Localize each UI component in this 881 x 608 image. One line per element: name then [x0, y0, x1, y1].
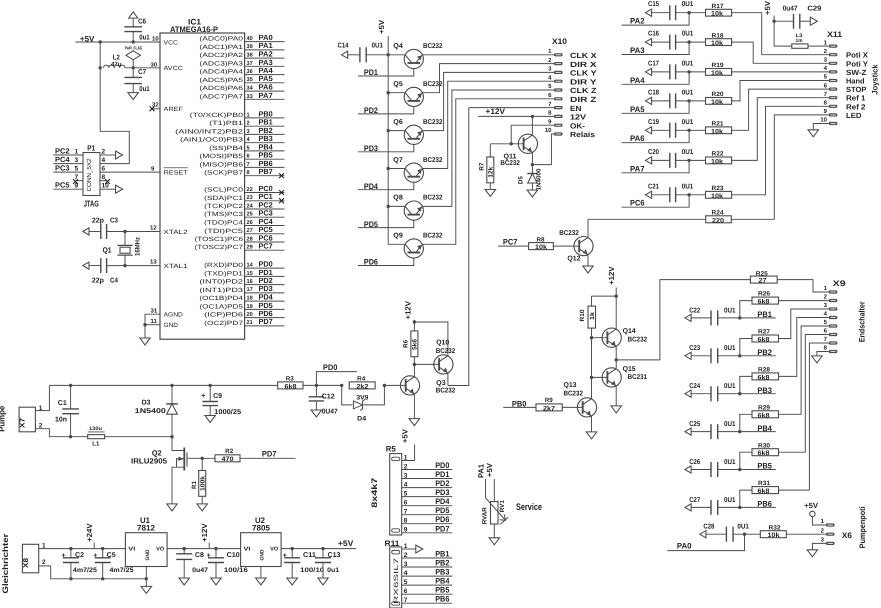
svg-text:(ADC6)PA6: (ADC6)PA6	[199, 85, 243, 92]
capacitor C10 100/16	[214, 547, 217, 550]
svg-text:R21: R21	[712, 121, 725, 128]
X10 pad 8 12V	[554, 115, 563, 118]
svg-text:D5: D5	[518, 176, 525, 185]
svg-text:C13: C13	[328, 552, 341, 559]
pin 1 net PB0	[245, 117, 285, 119]
capacitor C17 0U1	[645, 68, 651, 75]
svg-text:0U1: 0U1	[737, 524, 749, 531]
svg-text:2: 2	[42, 559, 46, 566]
wire +12V to Q10 collector	[414, 322, 448, 355]
pin 29 net PC7	[245, 249, 285, 251]
svg-text:22p: 22p	[92, 278, 104, 285]
svg-text:10k: 10k	[768, 532, 780, 539]
svg-text:0u1: 0u1	[139, 86, 150, 93]
svg-text:PD3: PD3	[435, 488, 450, 497]
resistor R8 10k	[529, 243, 554, 250]
svg-text:8: 8	[247, 170, 250, 176]
wire EN riser to Q10 emitter	[469, 107, 554, 109]
svg-text:EN: EN	[570, 104, 582, 113]
svg-text:0U1: 0U1	[682, 1, 694, 8]
wire Q6 emitter to X10	[422, 72, 554, 130]
node PA3	[687, 40, 690, 43]
wire RV1 to ground	[493, 524, 495, 538]
svg-text:10: 10	[102, 183, 110, 190]
capacitor C2 4m7/25	[69, 547, 72, 550]
svg-text:BC232: BC232	[564, 391, 584, 398]
label PC6 wire	[622, 195, 690, 207]
svg-text:10k: 10k	[711, 193, 723, 200]
wire +5V to RV1 top	[493, 479, 495, 502]
wire Q3 emitter to ground	[413, 394, 415, 419]
wire R22 to X11	[732, 98, 829, 161]
svg-text:R27: R27	[758, 329, 771, 336]
pin 24 net PC2	[245, 208, 285, 210]
svg-text:7: 7	[75, 174, 79, 181]
svg-text:10k: 10k	[711, 158, 723, 165]
svg-text:PD2: PD2	[364, 106, 378, 115]
svg-text:R26: R26	[758, 291, 771, 298]
X9 pad 6	[829, 333, 838, 336]
svg-text:R7: R7	[479, 162, 486, 171]
svg-text:0U1: 0U1	[724, 421, 736, 428]
svg-text:Q7: Q7	[393, 157, 403, 164]
svg-text:25: 25	[247, 212, 253, 218]
svg-text:C10: C10	[227, 552, 240, 559]
wire PC4 to P1 pin3	[53, 163, 83, 165]
svg-text:PD5: PD5	[435, 506, 450, 515]
svg-text:35: 35	[247, 77, 253, 83]
svg-text:17: 17	[247, 287, 253, 293]
resistor R24 220	[588, 218, 706, 220]
R5 pin7 net PD5	[402, 514, 453, 516]
svg-text:Q1: Q1	[103, 246, 112, 255]
svg-text:8: 8	[404, 518, 408, 525]
pin 39 net PA1	[245, 49, 285, 51]
wire R31 to X9 pin7	[779, 343, 829, 490]
wire R3 right to node	[303, 384, 342, 386]
svg-text:Pumpenpoti: Pumpenpoti	[858, 506, 867, 548]
svg-text:5: 5	[247, 145, 250, 151]
svg-text:(SS)PB4: (SS)PB4	[209, 145, 244, 152]
R11 pin4 net PB3	[402, 575, 453, 577]
ground below C8	[179, 578, 190, 585]
R11 pin6 net PB5	[402, 593, 453, 595]
resistor R20 10k	[706, 98, 732, 105]
wire PC3 to P1 pin5	[53, 171, 83, 173]
svg-text:C19: C19	[648, 119, 659, 126]
ground below C12	[311, 410, 322, 417]
wire Q11 collector	[531, 116, 533, 135]
svg-text:10k: 10k	[711, 11, 723, 18]
svg-text:1N4000: 1N4000	[536, 168, 543, 191]
wire +12V to R10	[592, 295, 617, 297]
svg-text:AVCC: AVCC	[164, 65, 184, 72]
node L2 left	[99, 66, 102, 69]
pin 15 net PD1	[245, 275, 285, 277]
svg-text:GND: GND	[260, 549, 266, 560]
ground below C9	[205, 416, 216, 423]
svg-text:PD5: PD5	[364, 220, 378, 229]
P1 pin6 wire to RESET	[100, 171, 160, 173]
ground below D5	[527, 190, 538, 197]
svg-text:PB1: PB1	[757, 310, 772, 319]
svg-text:RVAR: RVAR	[482, 507, 489, 525]
pin 33 net PA7	[245, 98, 285, 100]
svg-text:0U1: 0U1	[682, 60, 694, 67]
wire Q14 emitter to node	[615, 346, 617, 360]
svg-text:+5V: +5V	[485, 463, 494, 477]
svg-text:9: 9	[404, 527, 408, 534]
svg-text:28: 28	[247, 236, 253, 242]
capacitor C26 0U1	[685, 466, 691, 473]
wire R10 to bases and Q13 collector	[591, 328, 593, 399]
svg-text:VO: VO	[156, 547, 165, 553]
svg-text:PD7: PD7	[259, 317, 273, 326]
X11 pad 1	[829, 45, 838, 48]
svg-text:PD2: PD2	[435, 479, 450, 488]
svg-text:(T1)PB1: (T1)PB1	[209, 120, 244, 127]
svg-text:VI: VI	[128, 547, 136, 553]
svg-text:7: 7	[247, 162, 250, 168]
svg-text:1: 1	[404, 543, 408, 550]
P1 pin2 supply arrow	[100, 154, 116, 156]
svg-text:R10: R10	[579, 309, 586, 322]
svg-text:R9: R9	[545, 397, 554, 404]
capacitor C28 0U1	[700, 531, 706, 538]
svg-text:R4: R4	[357, 376, 366, 383]
svg-text:BC232: BC232	[436, 387, 456, 394]
svg-text:P1: P1	[87, 144, 95, 153]
wire R19 to X11	[732, 71, 829, 73]
svg-text:C29: C29	[807, 5, 821, 12]
wire R24 riser to X11 pin9 LED	[774, 115, 829, 219]
svg-text:C8: C8	[195, 552, 204, 559]
svg-text:VO: VO	[270, 547, 279, 553]
svg-text:CLK Z: CLK Z	[570, 86, 597, 95]
wire +5V to VCC	[75, 41, 160, 43]
R11 pin5 net PB4	[402, 584, 453, 586]
svg-text:0U1: 0U1	[724, 307, 736, 314]
wire rail to Q7 collector	[388, 168, 405, 170]
wire Q14 base	[592, 337, 608, 339]
pin 25 net PC3	[245, 216, 285, 218]
svg-text:27: 27	[247, 228, 253, 234]
svg-text:PC6: PC6	[630, 199, 645, 208]
X9 pad 7	[829, 341, 838, 344]
svg-text:Pumpe: Pumpe	[0, 405, 7, 432]
svg-text:0u47: 0u47	[192, 567, 208, 574]
svg-text:10k: 10k	[711, 40, 723, 47]
capacitor C11 100/10	[291, 547, 294, 550]
label PA7 wire	[622, 160, 690, 172]
wire top rail	[49, 384, 277, 386]
capacitor C14	[342, 51, 348, 58]
node +5V branch	[99, 40, 102, 43]
svg-text:11: 11	[151, 318, 158, 325]
svg-text:L1: L1	[92, 440, 100, 447]
mosfet Q2 IRLU2905	[172, 437, 184, 451]
X9 pad 2	[829, 299, 838, 302]
wire PA1 to wiper	[485, 479, 487, 498]
capacitor C13 0u1	[321, 547, 324, 550]
svg-text:0U1: 0U1	[372, 43, 384, 50]
capacitor C18 0U1	[645, 97, 651, 104]
svg-text:C4: C4	[110, 278, 118, 285]
svg-text:2k2: 2k2	[356, 383, 368, 390]
wire Q10 emitter	[447, 373, 449, 385]
svg-text:1: 1	[247, 112, 250, 118]
wire R25 to X9 pin1	[777, 280, 829, 292]
pin 26 net PC4	[245, 225, 285, 227]
svg-text:(ADC1)PA1: (ADC1)PA1	[199, 44, 243, 51]
svg-text:C16: C16	[648, 31, 659, 38]
svg-text:C15: C15	[648, 1, 659, 8]
svg-text:47u: 47u	[111, 61, 122, 68]
svg-text:(ADC2)PA2: (ADC2)PA2	[199, 52, 243, 59]
node XTAL2	[123, 230, 126, 233]
trimmer RV1 RVAR	[491, 502, 499, 524]
X11 pad 8	[829, 105, 838, 108]
svg-text:PA7: PA7	[259, 91, 273, 100]
wire R28 to X9 pin4	[779, 318, 829, 377]
svg-text:PB6: PB6	[757, 500, 772, 509]
svg-text:1: 1	[42, 542, 46, 549]
svg-text:BC232: BC232	[436, 348, 456, 355]
svg-text:DIR Y: DIR Y	[570, 77, 597, 86]
svg-text:3: 3	[247, 129, 250, 135]
R5 pin8 net PD6	[402, 523, 453, 525]
svg-text:34: 34	[247, 86, 254, 92]
svg-text:27: 27	[759, 278, 767, 285]
svg-text:12k: 12k	[487, 166, 494, 178]
svg-text:(OC2)PD7: (OC2)PD7	[204, 320, 244, 327]
svg-text:R20: R20	[712, 91, 725, 98]
svg-text:6k8: 6k8	[758, 412, 770, 419]
svg-text:XTAL1: XTAL1	[164, 263, 189, 270]
svg-text:PC7: PC7	[259, 242, 273, 251]
svg-text:PB2: PB2	[435, 559, 450, 568]
svg-text:DIR X: DIR X	[570, 60, 597, 69]
pin 18 net PD4	[245, 300, 285, 302]
svg-text:14: 14	[247, 263, 254, 269]
resistor R10 1k	[591, 296, 593, 306]
svg-text:10k: 10k	[711, 128, 723, 135]
svg-text:0U1: 0U1	[682, 89, 694, 96]
svg-text:R24: R24	[712, 210, 725, 217]
X10 pad 5 CLK Z	[554, 88, 563, 91]
svg-text:PB7: PB7	[259, 167, 273, 176]
wire AGND GND to ground	[145, 314, 160, 338]
X10 pad 6 DIR Z	[554, 97, 563, 100]
svg-text:0U1: 0U1	[682, 149, 694, 156]
wire PD2 to Q5 base	[358, 107, 414, 114]
node R4 left	[340, 384, 343, 387]
wire PD1 to Q4 base	[358, 69, 414, 76]
ground below U1	[141, 586, 152, 593]
svg-text:PA0: PA0	[677, 541, 692, 550]
node PB6	[738, 506, 741, 509]
svg-text:PD0: PD0	[323, 363, 338, 372]
svg-text:10k: 10k	[711, 70, 723, 77]
svg-text:(ADC7)PA7: (ADC7)PA7	[199, 93, 243, 100]
svg-text:1: 1	[404, 454, 408, 461]
resistor R19 10k	[706, 69, 732, 76]
capacitor C4 22p	[83, 262, 89, 269]
wire R27 to X9 pin3	[779, 309, 829, 339]
svg-text:1m: 1m	[796, 38, 804, 44]
transistor Q11 BC232	[518, 134, 537, 153]
svg-text:C20: C20	[648, 149, 659, 156]
svg-text:PB5: PB5	[757, 462, 772, 471]
svg-text:Q13: Q13	[564, 382, 577, 389]
svg-text:22p: 22p	[92, 218, 104, 225]
X6 pin3 ground	[812, 543, 826, 549]
node PA4	[687, 70, 690, 73]
svg-text:10k: 10k	[711, 99, 723, 106]
R5 pin9 net PD7	[402, 532, 453, 534]
svg-text:6k8: 6k8	[285, 383, 297, 390]
svg-text:Joystick: Joystick	[871, 64, 880, 95]
node rail Q4	[387, 53, 390, 56]
svg-text:2: 2	[247, 121, 250, 127]
svg-text:C5: C5	[107, 552, 116, 559]
svg-text:PA7: PA7	[630, 164, 645, 173]
svg-text:BC231: BC231	[628, 374, 648, 381]
svg-text:C6: C6	[138, 19, 146, 26]
ground below Q2	[167, 504, 177, 511]
svg-text:GND: GND	[164, 322, 179, 329]
resistor R18 10k	[706, 39, 732, 46]
svg-text:+12V: +12V	[200, 523, 209, 542]
svg-text:PD0: PD0	[435, 461, 450, 470]
svg-text:1N5400: 1N5400	[135, 408, 166, 415]
svg-text:PB5: PB5	[435, 586, 450, 595]
svg-text:C28: C28	[703, 524, 714, 531]
svg-text:19: 19	[247, 304, 253, 310]
resistor R2 470	[215, 455, 240, 462]
svg-text:10n: 10n	[55, 416, 67, 423]
svg-text:PA2: PA2	[630, 17, 645, 26]
ground below C7	[128, 93, 138, 100]
svg-text:10k: 10k	[535, 244, 547, 251]
resistor R7 12k	[489, 144, 491, 157]
R5 pin3 net PD1	[402, 478, 453, 480]
wire rail to Q4 collector	[388, 54, 405, 56]
svg-text:AREF: AREF	[164, 106, 184, 113]
svg-text:C2: C2	[75, 552, 84, 559]
svg-text:L2: L2	[113, 55, 120, 62]
svg-text:BC232: BC232	[423, 119, 443, 126]
svg-text:130u: 130u	[89, 426, 102, 432]
wire rail to Q6 collector	[388, 130, 405, 132]
X9 pad 3	[829, 307, 838, 310]
svg-text:1: 1	[75, 148, 79, 155]
wire U1 output	[167, 548, 241, 550]
svg-text:R32: R32	[769, 524, 782, 531]
wire Q7 emitter to X10	[422, 81, 554, 168]
X11 pad 7	[829, 96, 838, 99]
svg-text:R17: R17	[712, 3, 725, 10]
wire R17 to X11	[732, 13, 829, 55]
svg-text:4: 4	[404, 481, 408, 488]
svg-text:Gleichrichter: Gleichrichter	[1, 534, 10, 594]
svg-text:JTAG: JTAG	[84, 198, 99, 208]
X10 pad 4 DIR Y	[554, 80, 563, 83]
node R4 right	[383, 384, 386, 387]
R11 pin3 net PB2	[402, 566, 453, 568]
P1 pin8 no-connect	[100, 180, 106, 182]
capacitor C23 0U1	[685, 352, 691, 359]
svg-text:PD6: PD6	[364, 258, 378, 267]
transistor Q14 BC232	[602, 328, 621, 347]
svg-text:12V: 12V	[570, 113, 586, 122]
svg-text:Q5: Q5	[393, 81, 403, 88]
svg-text:20: 20	[247, 312, 253, 318]
svg-text:PB2: PB2	[757, 348, 772, 357]
wire R2 to PD7	[240, 457, 296, 459]
svg-text:C7: C7	[138, 69, 146, 76]
regulator U1 7812	[125, 533, 167, 567]
wire PC2 to P1 pin1	[53, 154, 83, 156]
wire R20 to X11	[732, 81, 829, 101]
X9 pad 1	[829, 290, 838, 293]
resistor R26 6k8	[740, 301, 752, 318]
resistor R17 10k	[706, 9, 732, 16]
wire Q3 collector	[413, 364, 415, 376]
svg-text:470: 470	[222, 456, 234, 463]
svg-text:Q12: Q12	[567, 255, 580, 262]
svg-text:10: 10	[152, 36, 159, 43]
wire Q15 base	[592, 376, 608, 378]
svg-text:(TDO)PC4: (TDO)PC4	[204, 220, 244, 227]
svg-text:Relais: Relais	[570, 130, 595, 139]
capacitor C1 10n	[69, 384, 72, 387]
svg-text:C9: C9	[213, 393, 222, 400]
svg-text:R23: R23	[712, 185, 725, 192]
microcontroller IC1 ATMEGA16-P	[160, 33, 245, 339]
svg-text:+: +	[201, 391, 206, 400]
svg-text:39: 39	[247, 44, 253, 50]
svg-text:10: 10	[545, 127, 552, 134]
node Q15 base	[590, 376, 593, 379]
label PA5 wire	[622, 101, 690, 113]
svg-text:(TDI)PC5: (TDI)PC5	[204, 228, 244, 235]
resistor R23 10k	[706, 191, 732, 198]
capacitor C20 0U1	[645, 157, 651, 164]
wire PB0 to R9	[503, 406, 536, 408]
svg-text:5k6: 5k6	[411, 338, 418, 350]
svg-text:0U47: 0U47	[322, 409, 338, 416]
resistor R9 2k7	[536, 404, 562, 411]
svg-text:XTAL2: XTAL2	[164, 229, 189, 236]
svg-text:(SDA)PC1: (SDA)PC1	[204, 195, 244, 202]
pin 27 net PC5	[245, 233, 285, 235]
pin 40 net PA0	[245, 41, 285, 43]
node D3 L1 Q2	[170, 435, 173, 438]
svg-text:6k8: 6k8	[758, 488, 770, 495]
X9 pad 8	[829, 350, 838, 353]
svg-text:(RXD)PD0: (RXD)PD0	[204, 262, 244, 269]
pin 34 net PA6	[245, 90, 285, 92]
svg-text:(ADC3)PA3: (ADC3)PA3	[199, 60, 243, 67]
svg-text:PD4: PD4	[435, 497, 450, 506]
R5 pin6 net PD4	[402, 505, 453, 507]
wire R8 to Q12 base	[553, 245, 579, 247]
pin 5 net PB4	[245, 150, 285, 152]
svg-text:VI: VI	[244, 547, 252, 553]
svg-text:C26: C26	[689, 459, 700, 466]
svg-text:PC5: PC5	[55, 181, 70, 190]
